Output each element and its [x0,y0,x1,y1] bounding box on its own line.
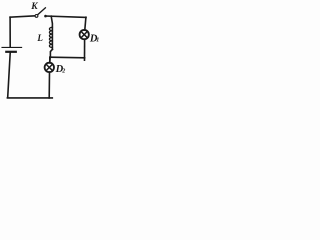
svg-text:K: K [30,2,38,12]
svg-text:1: 1 [96,38,99,44]
svg-text:2: 2 [61,69,65,75]
svg-text:L: L [36,33,43,43]
